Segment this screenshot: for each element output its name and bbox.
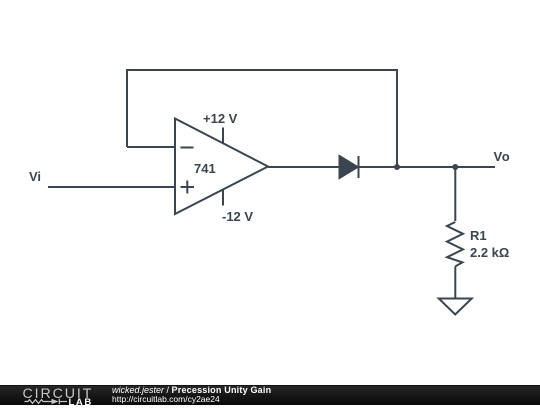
wire R1 branch down (454, 167, 456, 221)
op-amp -12V pin stub (222, 190, 224, 206)
node junction dot R1 tap (452, 164, 458, 170)
svg-text:Vo: Vo (494, 149, 511, 164)
wire op-amp output to diode (268, 166, 339, 168)
op-amp U1 triangle (175, 119, 268, 215)
svg-text:+12 V: +12 V (203, 111, 238, 126)
svg-text:R1: R1 (470, 228, 487, 243)
op-amp plus sign (181, 181, 195, 194)
resistor R1 zigzag (447, 222, 463, 266)
op-amp minus sign (181, 147, 194, 149)
node junction dot feedback/output (394, 164, 400, 170)
svg-text:Vi: Vi (29, 169, 41, 184)
diode D1 (340, 156, 359, 178)
wire Vi to non-inverting input (48, 186, 175, 188)
logo resistor+diode (25, 399, 68, 405)
wire feedback loop (127, 70, 397, 167)
wire inverting input (127, 146, 175, 148)
svg-text:741: 741 (194, 161, 216, 176)
ground (439, 299, 472, 315)
svg-text:-12 V: -12 V (222, 209, 253, 224)
wire diode to Vo (359, 166, 496, 168)
footer bar (0, 385, 540, 405)
footer credit text (112, 385, 271, 405)
op-amp +12V pin stub (222, 128, 224, 144)
svg-text:2.2 kΩ: 2.2 kΩ (470, 245, 509, 260)
wire R1 to ground (454, 266, 456, 298)
